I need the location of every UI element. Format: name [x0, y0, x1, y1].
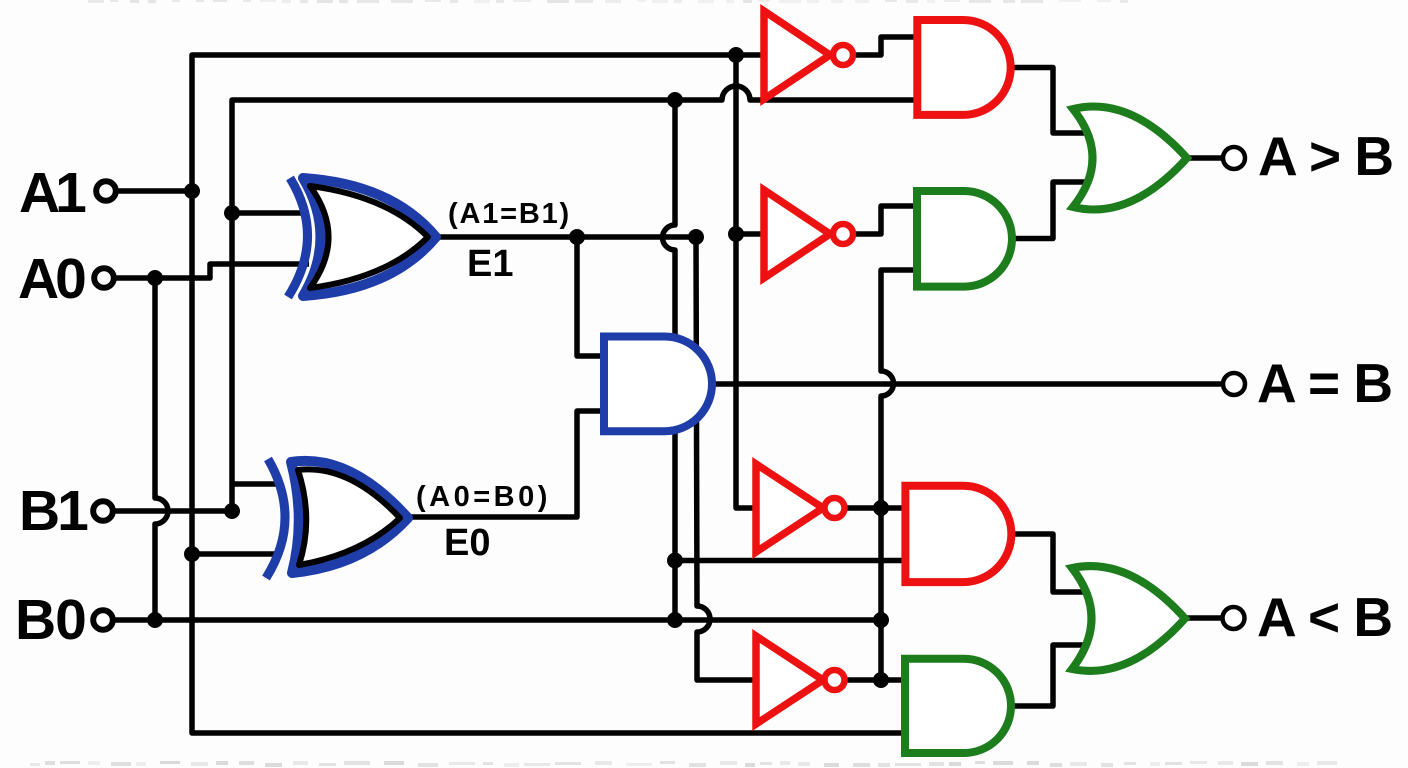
- junction node J7: [667, 612, 683, 628]
- svg-text:(A1=B1): (A1=B1): [448, 198, 571, 230]
- faint cropped-text artifacts top edge: [88, 0, 104, 3]
- svg-text:(A0=B0): (A0=B0): [416, 481, 551, 513]
- junction node J8: [873, 612, 889, 628]
- bubble of U5 inverter: [833, 224, 853, 244]
- bubble of U4 inverter top: [833, 45, 853, 65]
- svg-text:A = B: A = B: [1257, 352, 1392, 414]
- OR gate U13 (A&lt;B): [1072, 566, 1185, 671]
- junction node J3: [224, 205, 240, 221]
- svg-text:A < B: A < B: [1257, 586, 1392, 648]
- wire OR2 output stub: [1181, 615, 1222, 621]
- junction node J5: [224, 503, 240, 519]
- wire x675 bus with hop over E1: [663, 100, 676, 620]
- terminal A&lt;B output terminal: [1223, 607, 1245, 629]
- junction node J14: [873, 500, 889, 516]
- wire A1 bus down and bottom line y=733: [192, 191, 908, 733]
- wire B0 wire: [113, 617, 881, 623]
- wire NOT4 output to green AND2 upper: [846, 677, 907, 683]
- wire A1 bus up and top line y=55: [192, 55, 764, 191]
- junction node J6: [147, 612, 163, 628]
- svg-text:A0: A0: [18, 247, 85, 311]
- wire x736 bus to NOT3 input: [736, 55, 758, 508]
- AND gate U8 red bottom: [905, 486, 1011, 582]
- wire NOT2 output to green AND1 upper: [855, 206, 919, 234]
- svg-text:B1: B1: [19, 479, 88, 543]
- terminal A=B output terminal: [1223, 373, 1245, 395]
- wire A0 bus down with hop over B1: [155, 278, 168, 620]
- NOT gate U11 inverter: [756, 636, 823, 724]
- wire A1 input stub: [116, 188, 192, 194]
- wire line y=100 with hop and x232 bus: [232, 86, 918, 511]
- bubble of U11 inverter: [825, 670, 845, 690]
- wire red AND2 output to OR2 upper: [1009, 534, 1090, 592]
- wire NOT2 input stub: [736, 231, 766, 237]
- junction node J1: [184, 183, 200, 199]
- wire XOR2 upper input: [232, 481, 280, 487]
- junction node J16: [184, 546, 200, 562]
- svg-text:B0: B0: [15, 588, 86, 652]
- wire x881 bus green AND1 lower input down: [881, 270, 919, 680]
- terminal B0 input terminal: [93, 610, 113, 630]
- AND gate U7 green top: [917, 191, 1012, 287]
- wire x697 bus to NOT4 input: [696, 237, 758, 680]
- OR gate U12 (A&gt;B): [1073, 106, 1187, 209]
- wire XOR2 lower input branch: [192, 551, 279, 557]
- junction node J2: [728, 47, 744, 63]
- wire NOT3 output to red AND2 upper: [845, 505, 907, 511]
- XOR gate U2 (A0=B0 / E0): [266, 459, 285, 578]
- svg-text:A > B: A > B: [1258, 125, 1393, 187]
- wire XOR1 upper input: [232, 210, 309, 216]
- wire red AND1 output to OR1 upper: [1008, 68, 1092, 134]
- junction node J10: [688, 229, 704, 245]
- wire green AND1 output to OR1 lower: [1010, 182, 1092, 239]
- NOT gate U10 inverter: [756, 464, 823, 552]
- wire E1 output line: [433, 234, 696, 240]
- wire E1 branch to AND upper input: [577, 237, 604, 356]
- svg-text:E0: E0: [444, 522, 490, 564]
- junction node J9: [569, 229, 585, 245]
- wire A0 wire stepped to XOR1 lower input: [114, 264, 309, 278]
- NOT gate U4 inverter top: [764, 11, 830, 99]
- AND gate U3 blue: [604, 337, 712, 432]
- NOT gate U5 inverter: [764, 190, 830, 278]
- wire green AND2 output to OR2 lower: [1009, 645, 1090, 706]
- junction node J4: [147, 270, 163, 286]
- wire B1 wire: [113, 508, 232, 514]
- wire E0 line to AND lower input: [406, 411, 604, 517]
- junction node J13: [728, 226, 744, 242]
- bubble of U10 inverter: [825, 498, 845, 518]
- wire OR1 output stub: [1184, 155, 1223, 161]
- AND gate U6 red top (A1.B1bar): [917, 20, 1010, 115]
- terminal B1 input terminal: [93, 501, 113, 521]
- wire NOT1 output to red AND1 upper: [853, 37, 919, 55]
- AND gate U9 green bottom: [905, 659, 1011, 753]
- terminal A1 input terminal: [96, 181, 116, 201]
- terminal A0 input terminal: [94, 268, 114, 288]
- wire A=B output line: [712, 381, 1223, 387]
- junction node J15: [873, 672, 889, 688]
- faint cropped-text artifacts bottom edge: [30, 763, 40, 766]
- wire red AND2 lower input line y=560: [675, 558, 905, 564]
- XOR gate U1 (A1=B1 / E1): [288, 178, 308, 297]
- svg-text:E1: E1: [467, 243, 513, 285]
- svg-text:A1: A1: [19, 161, 86, 225]
- terminal A&gt;B output terminal: [1223, 147, 1245, 169]
- junction node J12: [667, 553, 683, 569]
- junction node J11: [667, 92, 683, 108]
